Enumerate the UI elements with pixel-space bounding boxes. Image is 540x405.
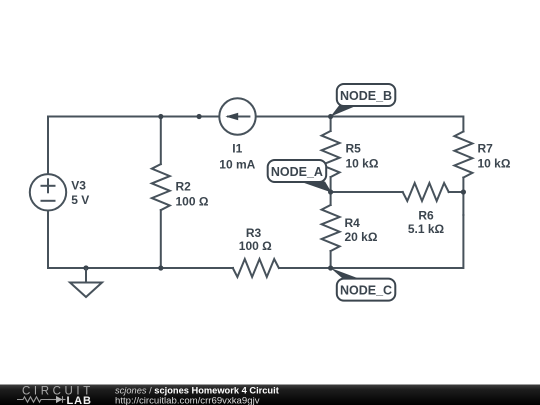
wire top net: left corner to I1 left terminal — [48, 117, 218, 174]
V3 plus sign — [42, 185, 55, 187]
node label NODE_B box — [337, 84, 396, 106]
svg-text:http://circuitlab.com/crr69vxk: http://circuitlab.com/crr69vxka9gjv — [115, 396, 260, 405]
I1 arrow head pointing left — [225, 113, 238, 121]
svg-text:R4: R4 — [345, 216, 361, 230]
resistor R4 20 kohm — [322, 205, 340, 251]
node dot R2 bottom — [158, 265, 163, 270]
svg-text:NODE_C: NODE_C — [340, 283, 392, 297]
svg-text:V3: V3 — [71, 178, 86, 192]
node dot R2 top — [158, 114, 163, 119]
svg-text:10 kΩ: 10 kΩ — [346, 157, 379, 171]
svg-text:R5: R5 — [346, 142, 362, 156]
svg-text:R6: R6 — [418, 209, 434, 223]
svg-text:R3: R3 — [246, 226, 262, 240]
node dot NODE_C — [328, 265, 333, 270]
svg-text:20 kΩ: 20 kΩ — [345, 230, 378, 244]
svg-text:10 kΩ: 10 kΩ — [478, 157, 511, 171]
svg-text:5.1 kΩ: 5.1 kΩ — [408, 222, 445, 236]
svg-text:5 V: 5 V — [71, 193, 89, 207]
current source I1 circle — [219, 98, 255, 134]
svg-text:LAB: LAB — [67, 395, 92, 405]
node dot NODE_B — [328, 114, 333, 119]
svg-text:R2: R2 — [176, 179, 192, 193]
node label NODE_A pointer — [300, 182, 332, 193]
svg-text:100 Ω: 100 Ω — [176, 194, 209, 208]
resistor R7 10 kohm — [454, 132, 472, 178]
V3 minus sign — [42, 200, 55, 202]
I1 arrow shaft — [228, 116, 249, 118]
wire R2 branch top lead — [160, 117, 162, 165]
node dot right mid — [461, 189, 466, 194]
svg-text:100 Ω: 100 Ω — [239, 239, 272, 253]
wire R7 bottom lead to node on right branch — [462, 178, 464, 216]
node label NODE_C pointer — [331, 268, 362, 280]
node label NODE_B pointer — [331, 106, 357, 117]
wire R5 leads node B to node A — [330, 117, 332, 132]
svg-text:NODE_B: NODE_B — [340, 89, 392, 103]
CircuitLab logo resistor-diode glyph — [17, 396, 66, 403]
voltage source V3 circle — [30, 174, 66, 210]
svg-text:NODE_A: NODE_A — [271, 165, 323, 179]
node label NODE_A box — [268, 160, 327, 182]
wire node A net: node A to R6 left lead — [331, 191, 403, 193]
wire bottom net: R3 right lead to node C to bottom-right corner — [279, 215, 463, 268]
node dot NODE_A — [328, 189, 333, 194]
svg-text:I1: I1 — [232, 141, 242, 155]
wire top net: I1 right terminal to node B and right corner down to R7 — [257, 117, 464, 132]
node dot ground — [83, 265, 88, 270]
node dot wire joint top — [197, 114, 202, 119]
ground symbol — [70, 268, 102, 297]
svg-text:R7: R7 — [478, 142, 494, 156]
resistor R5 10 kohm — [322, 131, 340, 177]
node label NODE_C box — [337, 279, 396, 301]
wire left net: V3 bottom to bottom-left corner — [48, 211, 233, 268]
wire node A net: R6 right lead to right branch — [449, 191, 464, 193]
svg-text:10 mA: 10 mA — [219, 158, 255, 172]
resistor R2 100 ohm — [152, 164, 170, 210]
wire R2 branch bottom lead — [160, 210, 162, 268]
resistor R3 100 ohm — [233, 259, 279, 277]
resistor R6 5.1 kohm — [403, 183, 449, 201]
svg-text:scjones / scjones Homework 4 C: scjones / scjones Homework 4 Circuit — [115, 386, 279, 396]
wire R4 leads node A to node C — [330, 192, 332, 205]
